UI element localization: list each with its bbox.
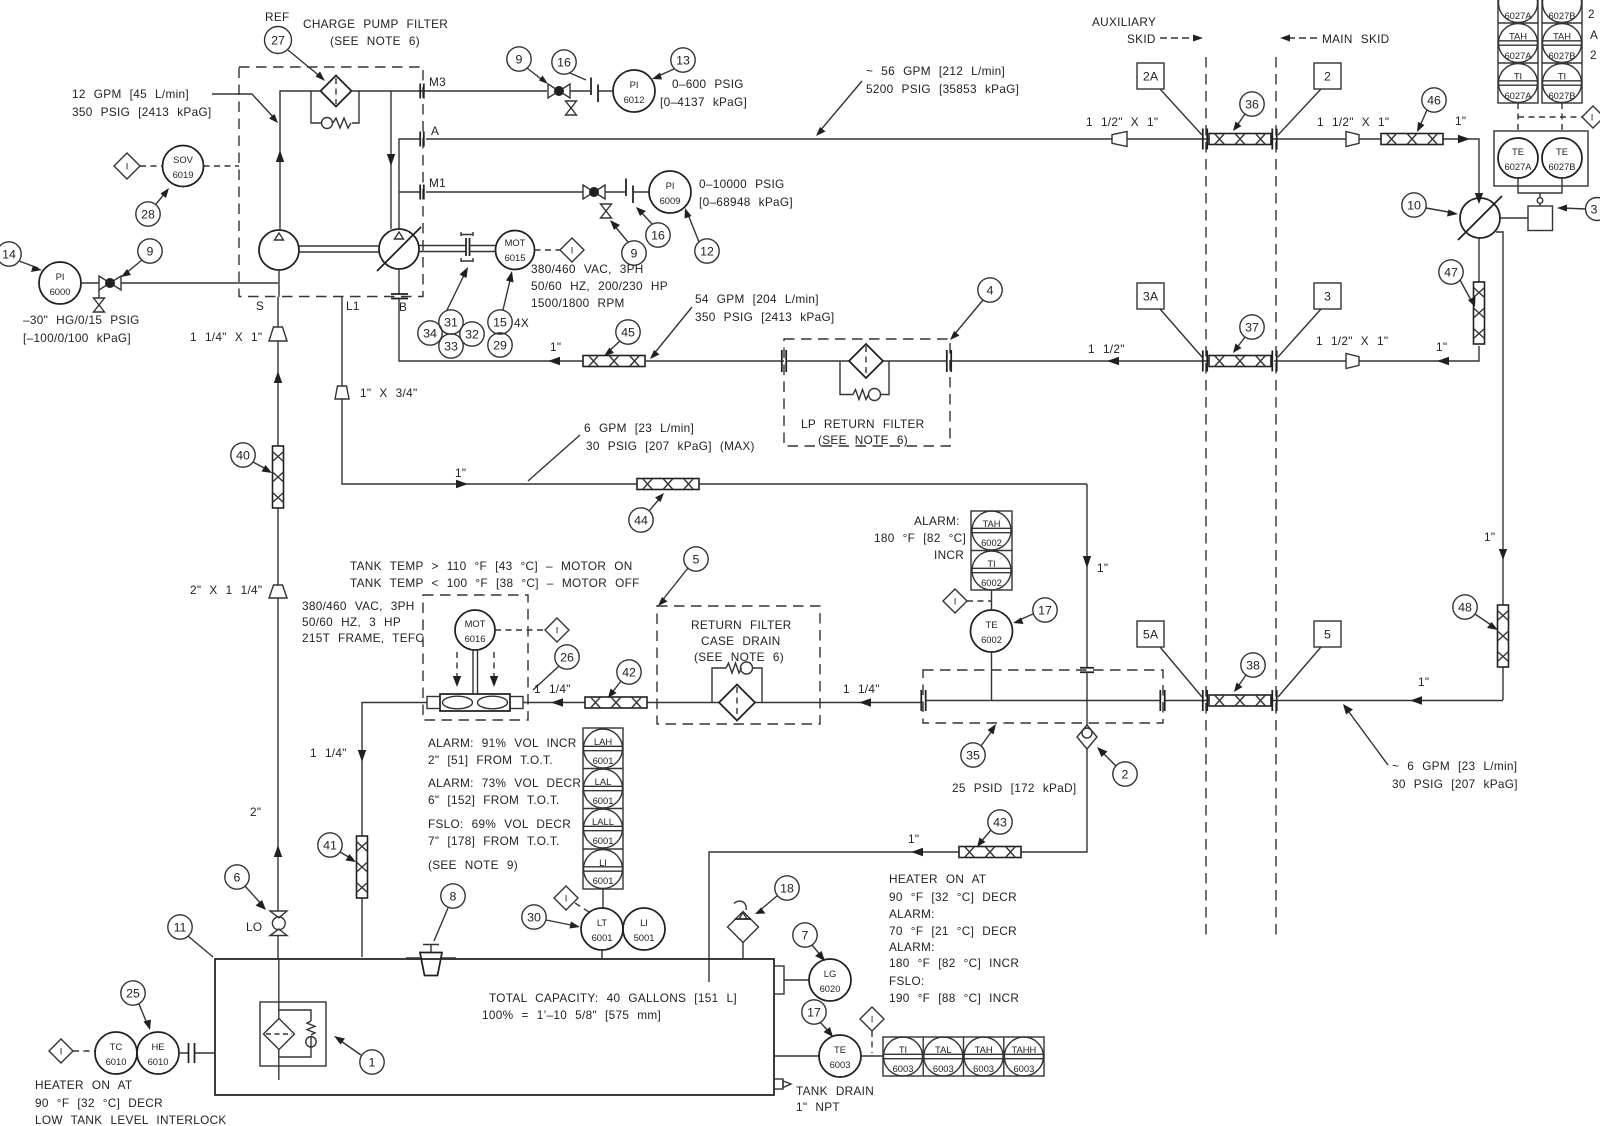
- instrument stack TI/TAL/TAH/TAHH 6003: [883, 1037, 1044, 1076]
- wire LT to tank: [601, 950, 603, 959]
- svg-text:6: 6: [234, 871, 241, 885]
- balloon 27: [265, 27, 292, 54]
- svg-text:46: 46: [1427, 94, 1441, 108]
- balloon 9 (M3 valve): [507, 47, 531, 71]
- svg-text:6000: 6000: [50, 286, 71, 297]
- svg-text:TAL: TAL: [935, 1044, 952, 1055]
- balloon 36: [1240, 92, 1264, 116]
- svg-text:48: 48: [1458, 601, 1472, 615]
- wire cooler outlet to tank: [362, 703, 427, 958]
- svg-text:6027A: 6027A: [1504, 161, 1532, 172]
- port M1: [420, 185, 424, 200]
- svg-text:6027B: 6027B: [1548, 161, 1575, 172]
- svg-text:6015: 6015: [505, 252, 526, 263]
- level gauge nozzle: [774, 966, 784, 994]
- svg-text:SKID: SKID: [1127, 32, 1156, 46]
- svg-text:1 1/4" X 1": 1 1/4" X 1": [190, 330, 262, 344]
- svg-text:M1: M1: [429, 176, 446, 190]
- balloon 40: [231, 443, 255, 467]
- balloon 15: [488, 310, 512, 334]
- wire M3 valve to gauge: [570, 90, 613, 92]
- pump P1 charge pump: [259, 230, 299, 270]
- svg-text:2: 2: [1324, 70, 1331, 84]
- svg-text:33: 33: [444, 340, 458, 354]
- balloon 17 (TE 6003): [802, 1000, 826, 1024]
- bleed valve M1: [601, 204, 612, 211]
- snubber M3: [591, 78, 598, 103]
- svg-text:I: I: [571, 245, 574, 256]
- balloon 16 (M3 snubber): [552, 50, 576, 74]
- svg-text:1": 1": [1436, 340, 1447, 354]
- port flange (hose 38 left): [1203, 690, 1207, 711]
- TE pair enclosure: [1494, 131, 1588, 186]
- wire case drain drop to trace box: [1086, 484, 1088, 667]
- leader 6 GPM return note: [1346, 708, 1388, 765]
- svg-text:(SEE NOTE 9): (SEE NOTE 9): [428, 858, 518, 872]
- leader balloon 9 M1: [613, 224, 628, 242]
- svg-text:TE: TE: [1512, 146, 1524, 157]
- leader balloon 38: [1237, 675, 1246, 688]
- svg-text:6020: 6020: [820, 983, 841, 994]
- instrument LG 6020: [809, 959, 851, 1001]
- svg-text:180 °F [82 °C] INCR: 180 °F [82 °C] INCR: [889, 956, 1019, 970]
- interlock diamond I (motor 6016): [545, 618, 569, 642]
- interlock diamond I (motor 6015): [560, 238, 584, 262]
- filter F1 charge pump filter: [321, 76, 352, 107]
- leader balloon 31: [447, 271, 466, 310]
- svg-text:6" [152] FROM T.O.T.: 6" [152] FROM T.O.T.: [428, 793, 560, 807]
- svg-text:TANK TEMP > 110 °F [43 °C] – M: TANK TEMP > 110 °F [43 °C] – MOTOR ON: [350, 559, 633, 573]
- svg-text:HEATER ON AT: HEATER ON AT: [35, 1078, 132, 1092]
- leader 54 GPM note: [653, 307, 692, 355]
- leader balloon 36: [1236, 114, 1245, 127]
- wire case drain run: [342, 399, 1087, 484]
- svg-text:35: 35: [966, 749, 980, 763]
- svg-text:ALARM:: ALARM:: [914, 514, 960, 528]
- balloon 41: [318, 833, 342, 857]
- box 5: [1314, 621, 1341, 647]
- instrument HE 6010: [137, 1032, 179, 1074]
- wire hose45 to port B: [399, 299, 784, 361]
- svg-text:B: B: [399, 300, 407, 314]
- leader balloon 42: [611, 681, 621, 694]
- svg-text:TANK DRAIN: TANK DRAIN: [796, 1084, 874, 1098]
- leader balloon 28: [156, 192, 166, 204]
- instrument LI 6001: [623, 908, 665, 950]
- svg-text:1 1/4": 1 1/4": [843, 682, 880, 696]
- wire PI 6000 to valve: [81, 282, 99, 284]
- flexible hose 46: [1381, 134, 1443, 145]
- leader balloon 30: [546, 920, 576, 926]
- check valve bypass of charge filter: [311, 91, 359, 128]
- svg-text:17: 17: [807, 1006, 821, 1020]
- svg-text:2: 2: [1122, 768, 1129, 782]
- leader balloon 43: [980, 830, 991, 843]
- wire main pressure line: [426, 139, 1479, 198]
- box 3A: [1137, 283, 1164, 309]
- flexible hose 38: [1209, 695, 1271, 706]
- valve M3 gauge isolation: [548, 84, 559, 98]
- svg-text:50/60 HZ, 3 HP: 50/60 HZ, 3 HP: [302, 615, 401, 629]
- shaft charge pump to main pump: [299, 246, 379, 252]
- instrument stack LAH/LAL/LALL/LI 6001: [583, 728, 623, 889]
- leader balloon 8: [434, 908, 448, 941]
- svg-text:6003: 6003: [830, 1059, 851, 1070]
- port flange (hose 38 right): [1272, 690, 1276, 711]
- svg-text:9: 9: [147, 245, 154, 259]
- strainer filter element: [264, 1019, 295, 1050]
- svg-text:6027A: 6027A: [1504, 50, 1532, 61]
- instrument stack TAH/TI 6027B: [1542, 0, 1582, 103]
- balloon 48: [1453, 595, 1477, 619]
- leader balloon 37: [1236, 337, 1245, 349]
- svg-text:TI: TI: [1514, 71, 1522, 82]
- svg-text:1": 1": [1484, 530, 1495, 544]
- balloon 1: [360, 1050, 384, 1074]
- dashed heat trace box 35: [923, 670, 1163, 723]
- leader balloon 45: [608, 341, 620, 352]
- instrument stack TAH/TI 6027A: [1498, 0, 1538, 103]
- svg-text:350 PSIG [2413 kPaG]: 350 PSIG [2413 kPaG]: [72, 105, 212, 119]
- svg-text:PI: PI: [666, 180, 675, 191]
- box 3: [1314, 283, 1341, 309]
- balloon 9 (M1 bleed): [622, 241, 646, 265]
- svg-text:1 1/4": 1 1/4": [310, 746, 347, 760]
- wire suction line: [277, 297, 280, 1080]
- svg-text:M3: M3: [429, 75, 446, 89]
- leader box 3: [1278, 309, 1321, 357]
- svg-text:1 1/2" X 1": 1 1/2" X 1": [1316, 334, 1388, 348]
- instrument stack TAH/TI 6002: [971, 511, 1012, 590]
- heater element connection: [179, 1052, 215, 1054]
- svg-text:16: 16: [557, 56, 571, 70]
- svg-text:29: 29: [493, 339, 507, 353]
- svg-text:5A: 5A: [1143, 628, 1159, 642]
- svg-text:LI: LI: [599, 857, 607, 868]
- instrument TC 6010: [95, 1032, 137, 1074]
- leader balloon 26: [533, 666, 559, 690]
- svg-text:9: 9: [516, 53, 523, 67]
- svg-text:6027B: 6027B: [1548, 50, 1575, 61]
- svg-text:7" [178] FROM T.O.T.: 7" [178] FROM T.O.T.: [428, 834, 560, 848]
- heat exchanger core (fan): [440, 694, 510, 711]
- balloon 12: [695, 239, 719, 263]
- wire valve to suction line: [121, 282, 278, 284]
- signal diamond to LT: [575, 903, 589, 912]
- svg-text:26: 26: [560, 651, 574, 665]
- svg-text:SOV: SOV: [173, 154, 194, 165]
- flexible hose 40: [273, 446, 284, 508]
- svg-text:12 GPM [45 L/min]: 12 GPM [45 L/min]: [72, 87, 189, 101]
- svg-text:5001: 5001: [634, 932, 655, 943]
- balloon 2: [1113, 762, 1137, 786]
- leader auxiliary skid: [1160, 37, 1195, 39]
- svg-text:4X: 4X: [514, 316, 529, 330]
- svg-text:RETURN FILTER: RETURN FILTER: [691, 618, 792, 632]
- svg-text:6003: 6003: [933, 1063, 954, 1074]
- svg-text:2": 2": [250, 805, 261, 819]
- interlock diamond I (SOV): [114, 153, 140, 179]
- reducer 1-1/2 x 1 (left of hose 36): [1112, 132, 1127, 147]
- wire check valve to tank return: [709, 749, 1087, 982]
- svg-text:350 PSIG [2413 kPaG]: 350 PSIG [2413 kPaG]: [695, 310, 835, 324]
- svg-text:MOT: MOT: [505, 237, 526, 248]
- balloon 16 (M1 snubber): [646, 223, 670, 247]
- svg-text:30 PSIG [207 kPaG]: 30 PSIG [207 kPaG]: [1392, 777, 1518, 791]
- shaft coupling to motor: [470, 246, 496, 252]
- reducer 1-1/2 x 1 (right of hose 36): [1346, 132, 1359, 147]
- svg-text:ALARM:: ALARM:: [889, 940, 935, 954]
- svg-text:[–100/0/100 kPaG]: [–100/0/100 kPaG]: [23, 331, 131, 345]
- svg-text:7: 7: [802, 929, 809, 943]
- svg-text:TE: TE: [1556, 146, 1568, 157]
- svg-text:TAHH: TAHH: [1011, 1044, 1036, 1055]
- svg-text:LAL: LAL: [595, 776, 612, 787]
- svg-text:2: 2: [1590, 48, 1597, 62]
- fill funnel 8: [423, 945, 439, 953]
- balloon 6: [225, 865, 249, 889]
- svg-text:MOT: MOT: [465, 618, 486, 629]
- bleed valve suction: [98, 290, 100, 298]
- leader box 2A: [1160, 89, 1202, 135]
- dashed enclosure pump unit: [239, 67, 423, 297]
- svg-text:LO: LO: [246, 920, 262, 934]
- port flange (LP filter right): [947, 350, 951, 372]
- svg-text:6027B: 6027B: [1548, 90, 1575, 101]
- wire TE elements to well: [1518, 178, 1562, 198]
- svg-text:28: 28: [141, 208, 155, 222]
- wire pump to port A: [399, 139, 421, 229]
- motor MOT 6016: [455, 610, 495, 650]
- svg-text:L1: L1: [346, 299, 360, 313]
- svg-text:47: 47: [1444, 266, 1458, 280]
- balloon 38: [1241, 653, 1265, 677]
- instrument TE 6003: [819, 1035, 861, 1077]
- port flange (trace box top): [1080, 668, 1094, 672]
- svg-text:TE: TE: [834, 1044, 846, 1055]
- svg-text:CHARGE PUMP FILTER: CHARGE PUMP FILTER: [303, 17, 448, 31]
- svg-text:0–10000 PSIG: 0–10000 PSIG: [699, 177, 785, 191]
- box 2A: [1137, 63, 1164, 89]
- air flow arrows: [457, 652, 494, 680]
- svg-text:190 °F [88 °C] INCR: 190 °F [88 °C] INCR: [889, 991, 1019, 1005]
- port B flange: [391, 294, 408, 299]
- leader balloon 25: [139, 1004, 148, 1026]
- svg-text:–30" HG/0/15 PSIG: –30" HG/0/15 PSIG: [23, 313, 140, 327]
- svg-text:31: 31: [444, 316, 458, 330]
- svg-text:6001: 6001: [593, 795, 614, 806]
- balloon 30: [522, 905, 546, 929]
- leader balloon 10: [1426, 208, 1454, 213]
- svg-text:MAIN SKID: MAIN SKID: [1322, 32, 1390, 46]
- flexible hose 41: [357, 836, 368, 898]
- tank drain fitting: [774, 1079, 783, 1089]
- instrument TE 6027A: [1498, 138, 1538, 178]
- wire cooler inlet: [523, 702, 585, 704]
- wire charge pump to S port: [278, 270, 280, 297]
- wire L1 drop: [341, 297, 343, 386]
- balloon 47: [1439, 260, 1463, 284]
- svg-text:I: I: [60, 1046, 63, 1057]
- leader balloon 17 TE6003: [820, 1022, 830, 1033]
- svg-text:3: 3: [1324, 290, 1331, 304]
- svg-text:LI: LI: [640, 917, 648, 928]
- reducer 1 x 3/4: [335, 386, 349, 399]
- svg-text:HE: HE: [151, 1041, 164, 1052]
- svg-text:LAH: LAH: [594, 736, 612, 747]
- svg-text:TC: TC: [110, 1041, 123, 1052]
- leader balloon 9 suction: [125, 260, 142, 274]
- leader balloon 11: [188, 936, 213, 957]
- balloon 42: [617, 660, 641, 684]
- leader 12 GPM note: [212, 94, 275, 119]
- signal diamond to TC: [73, 1050, 95, 1052]
- svg-text:(SEE NOTE 6): (SEE NOTE 6): [818, 433, 908, 447]
- wire stack to LT: [602, 889, 604, 908]
- wire stack to TE 6002: [991, 590, 993, 610]
- leader balloon 16 M1: [639, 210, 652, 224]
- svg-text:100% = 1’–10 5/8" [575 mm]: 100% = 1’–10 5/8" [575 mm]: [482, 1008, 661, 1022]
- leader box 5A: [1160, 647, 1202, 697]
- leader balloon 7: [812, 945, 822, 957]
- solenoid valve SOV 6019: [163, 146, 204, 187]
- balloon 35: [961, 743, 985, 767]
- port flange (hose 37 right): [1272, 351, 1276, 372]
- svg-text:1": 1": [1418, 675, 1429, 689]
- flexible hose 47: [1474, 282, 1485, 344]
- svg-text:43: 43: [993, 816, 1007, 830]
- svg-text:4: 4: [987, 284, 994, 298]
- dashed enclosure case drain filter: [657, 606, 820, 724]
- balloon 44: [629, 508, 653, 532]
- wire TE 6003 to stack: [861, 1055, 883, 1057]
- svg-text:[0–4137 kPaG]: [0–4137 kPaG]: [660, 95, 747, 109]
- svg-text:37: 37: [1245, 321, 1259, 335]
- svg-text:ALARM:: ALARM:: [889, 907, 935, 921]
- svg-text:34: 34: [423, 327, 437, 341]
- svg-text:16: 16: [651, 229, 665, 243]
- svg-text:6010: 6010: [148, 1056, 169, 1067]
- svg-text:380/460 VAC, 3PH: 380/460 VAC, 3PH: [531, 262, 644, 276]
- box 2: [1314, 63, 1341, 89]
- motor MOT 6015: [496, 231, 535, 270]
- tank T1 reservoir: [215, 959, 774, 1095]
- instrument TE 6027B: [1542, 138, 1582, 178]
- port flange (trace box left): [921, 690, 925, 711]
- svg-text:PI: PI: [56, 271, 65, 282]
- balloon 9 (suction valve): [138, 239, 162, 263]
- svg-text:I: I: [954, 596, 957, 607]
- svg-text:17: 17: [1038, 604, 1052, 618]
- svg-text:27: 27: [271, 34, 285, 48]
- leader balloon 17 TE6002: [1017, 614, 1033, 621]
- wire into case drain filter: [647, 702, 921, 704]
- wire filter to M3 port: [352, 90, 548, 92]
- interlock diamond I (heater): [49, 1039, 73, 1063]
- breather relief 18: [742, 943, 744, 960]
- svg-text:54 GPM [204 L/min]: 54 GPM [204 L/min]: [695, 292, 819, 306]
- port flange (hose 36 right): [1272, 129, 1276, 150]
- svg-text:1500/1800 RPM: 1500/1800 RPM: [531, 296, 625, 310]
- svg-text:ALARM: 73% VOL DECR: ALARM: 73% VOL DECR: [428, 776, 581, 790]
- svg-text:8: 8: [450, 890, 457, 904]
- balloon 14: [0, 242, 21, 266]
- svg-text:6016: 6016: [465, 633, 486, 644]
- leader balloon 35: [981, 728, 994, 746]
- svg-text:1: 1: [369, 1056, 376, 1070]
- flexible hose 45: [583, 356, 645, 367]
- port flange (LP filter left): [782, 350, 786, 372]
- balloon 28: [136, 202, 160, 226]
- port flange (trace box right): [1160, 690, 1164, 711]
- svg-text:TI: TI: [987, 558, 995, 569]
- leader balloon 14: [19, 261, 38, 268]
- dashed enclosure cooler: [423, 595, 528, 720]
- svg-text:A: A: [1590, 28, 1598, 42]
- signal diamond TE 6002: [967, 600, 991, 602]
- svg-text:6027A: 6027A: [1504, 90, 1532, 101]
- svg-text:6001: 6001: [593, 755, 614, 766]
- svg-text:6002: 6002: [981, 577, 1002, 588]
- svg-text:2" X 1 1/4": 2" X 1 1/4": [190, 583, 262, 597]
- balloon 34: [418, 321, 442, 345]
- svg-text:~ 6 GPM [23 L/min]: ~ 6 GPM [23 L/min]: [1392, 759, 1517, 773]
- flexible hose 42: [585, 697, 647, 708]
- reducer 2 x 1-1/4 (suction bottom): [269, 585, 287, 598]
- wire main pump to B port: [398, 269, 400, 294]
- svg-text:TE: TE: [986, 619, 998, 630]
- svg-text:25: 25: [126, 987, 140, 1001]
- svg-text:50/60 HZ, 200/230 HP: 50/60 HZ, 200/230 HP: [531, 279, 668, 293]
- svg-text:TOTAL CAPACITY: 40 GALLONS [1: TOTAL CAPACITY: 40 GALLONS [151 L]: [489, 991, 737, 1005]
- svg-text:I: I: [565, 893, 568, 904]
- svg-text:TAH: TAH: [982, 518, 1000, 529]
- leader balloon 1: [338, 1039, 361, 1055]
- svg-text:6012: 6012: [624, 94, 645, 105]
- svg-text:INCR: INCR: [934, 548, 964, 562]
- balloon 26: [555, 645, 579, 669]
- svg-text:41: 41: [323, 839, 337, 853]
- svg-text:6001: 6001: [593, 835, 614, 846]
- svg-text:I: I: [126, 161, 129, 172]
- wire M1 valve to gauge: [605, 191, 649, 193]
- svg-text:I: I: [871, 1014, 874, 1025]
- svg-text:40: 40: [236, 449, 250, 463]
- svg-text:380/460 VAC, 3PH: 380/460 VAC, 3PH: [302, 599, 415, 613]
- balloon 4: [978, 278, 1002, 302]
- svg-text:1": 1": [1455, 114, 1466, 128]
- svg-text:6003: 6003: [1013, 1063, 1034, 1074]
- signal MOT 6016 to interlock: [495, 629, 545, 631]
- svg-text:1" X 3/4": 1" X 3/4": [360, 386, 417, 400]
- svg-text:38: 38: [1246, 659, 1260, 673]
- svg-text:6027A: 6027A: [1504, 10, 1532, 21]
- instrument LT 6001: [581, 908, 623, 950]
- flexible hose 43: [959, 847, 1021, 858]
- svg-text:18: 18: [780, 882, 794, 896]
- leader balloon 6: [245, 886, 263, 906]
- shaft main pump to coupling: [419, 246, 466, 252]
- svg-text:LP RETURN FILTER: LP RETURN FILTER: [801, 417, 925, 431]
- svg-text:30 PSIG [207 kPaG] (MAX): 30 PSIG [207 kPaG] (MAX): [586, 439, 755, 453]
- svg-text:REF: REF: [265, 10, 290, 24]
- svg-text:6009: 6009: [660, 195, 681, 206]
- leader balloon 44: [649, 497, 661, 511]
- balloon 8: [441, 884, 465, 908]
- auxiliary skid dashed line: [1205, 57, 1207, 940]
- balloon 29: [488, 333, 512, 357]
- svg-text:PI: PI: [630, 79, 639, 90]
